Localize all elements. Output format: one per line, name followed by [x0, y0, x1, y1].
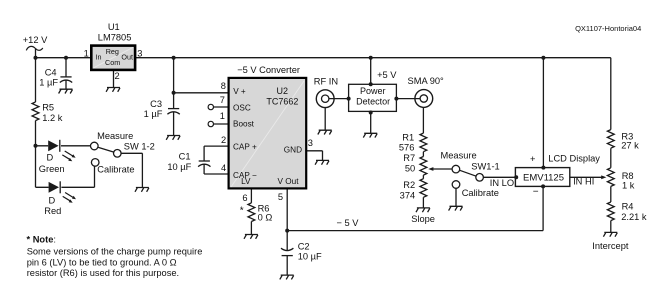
svg-text:SW 1-2: SW 1-2: [124, 142, 155, 152]
svg-text:R5: R5: [42, 103, 54, 113]
svg-text:−: −: [533, 186, 539, 197]
svg-text:LV: LV: [241, 177, 251, 186]
svg-text:U1: U1: [108, 22, 120, 32]
svg-text:C2: C2: [298, 242, 310, 252]
svg-text:D: D: [48, 196, 55, 206]
svg-text:R8: R8: [622, 171, 634, 181]
svg-text:IN LO: IN LO: [490, 178, 514, 188]
svg-text:Power: Power: [360, 86, 386, 96]
svg-text:EMV1125: EMV1125: [523, 172, 564, 183]
svg-text:4: 4: [221, 163, 226, 173]
svg-text:3: 3: [137, 48, 142, 58]
svg-text:2.21 k: 2.21 k: [621, 212, 647, 222]
svg-text:V Out: V Out: [278, 177, 300, 186]
svg-text:Com: Com: [105, 58, 120, 67]
svg-text:Reg: Reg: [106, 47, 119, 56]
svg-text:LCD Display: LCD Display: [548, 153, 600, 163]
svg-text:RF IN: RF IN: [314, 77, 338, 87]
svg-text:2: 2: [115, 71, 120, 81]
svg-text:1: 1: [84, 48, 89, 58]
svg-text:*: *: [240, 205, 244, 216]
svg-text:0 Ω: 0 Ω: [258, 213, 273, 223]
svg-text:Calibrate: Calibrate: [462, 188, 499, 198]
svg-text:C4: C4: [45, 68, 57, 78]
svg-text:+: +: [530, 154, 535, 164]
svg-text:R1: R1: [402, 132, 414, 142]
svg-text:Green: Green: [39, 164, 65, 174]
svg-text:U2: U2: [277, 86, 289, 96]
svg-text:QX1107-Hontoria04: QX1107-Hontoria04: [575, 24, 641, 33]
svg-text:resistor (R6) is used for this: resistor (R6) is used for this purpose.: [27, 268, 179, 278]
svg-text:SMA 90°: SMA 90°: [408, 76, 445, 86]
svg-text:Detector: Detector: [356, 97, 390, 107]
svg-text:5: 5: [278, 192, 283, 202]
svg-text:1 k: 1 k: [622, 181, 635, 191]
svg-text:Some versions of the charge pu: Some versions of the charge pump require: [27, 247, 203, 257]
svg-text:1 µF: 1 µF: [144, 109, 163, 119]
svg-text:8: 8: [221, 81, 226, 91]
svg-text:Measure: Measure: [97, 131, 133, 141]
svg-text:R2: R2: [403, 180, 415, 190]
svg-text:C1: C1: [179, 152, 191, 162]
svg-text:576: 576: [399, 143, 415, 153]
svg-text:IN HI: IN HI: [573, 176, 594, 186]
svg-text:pin 6 (LV) to be tied to groun: pin 6 (LV) to be tied to ground. A 0 Ω: [27, 257, 177, 267]
svg-text:R4: R4: [622, 202, 634, 212]
svg-text:OSC: OSC: [233, 104, 251, 113]
svg-text:374: 374: [400, 191, 416, 201]
svg-text:50: 50: [405, 164, 415, 174]
svg-text:* Note:: * Note:: [27, 234, 56, 244]
svg-text:−5 V Converter: −5 V Converter: [237, 65, 300, 75]
svg-text:Red: Red: [44, 206, 61, 216]
svg-text:C3: C3: [150, 99, 162, 109]
svg-text:2: 2: [221, 135, 226, 145]
svg-text:Boost: Boost: [233, 120, 255, 129]
svg-text:In: In: [96, 52, 102, 61]
svg-text:R7: R7: [403, 153, 415, 163]
svg-text:D: D: [47, 153, 54, 163]
svg-text:V +: V +: [233, 87, 246, 96]
svg-text:7: 7: [220, 95, 225, 105]
svg-text:3: 3: [308, 138, 313, 148]
svg-text:GND: GND: [284, 145, 302, 154]
svg-text:Intercept: Intercept: [592, 241, 629, 251]
svg-text:SW1-1: SW1-1: [471, 162, 499, 172]
svg-text:− 5 V: − 5 V: [337, 218, 360, 228]
svg-text:Measure: Measure: [441, 151, 477, 161]
svg-text:+5 V: +5 V: [377, 70, 397, 80]
svg-text:TC7662: TC7662: [266, 97, 298, 107]
svg-text:1.2 k: 1.2 k: [42, 113, 63, 123]
svg-text:27 k: 27 k: [621, 141, 639, 151]
svg-text:1 µF: 1 µF: [39, 78, 58, 88]
svg-text:10 µF: 10 µF: [167, 162, 191, 172]
svg-text:1: 1: [220, 111, 225, 121]
svg-text:Out: Out: [121, 52, 133, 61]
svg-text:10 µF: 10 µF: [298, 251, 322, 261]
svg-text:Slope: Slope: [411, 214, 435, 224]
svg-text:CAP +: CAP +: [233, 143, 257, 152]
svg-text:Calibrate: Calibrate: [97, 164, 134, 174]
svg-text:6: 6: [242, 193, 247, 203]
svg-text:+12 V: +12 V: [23, 35, 48, 45]
svg-text:LM7805: LM7805: [98, 32, 132, 42]
